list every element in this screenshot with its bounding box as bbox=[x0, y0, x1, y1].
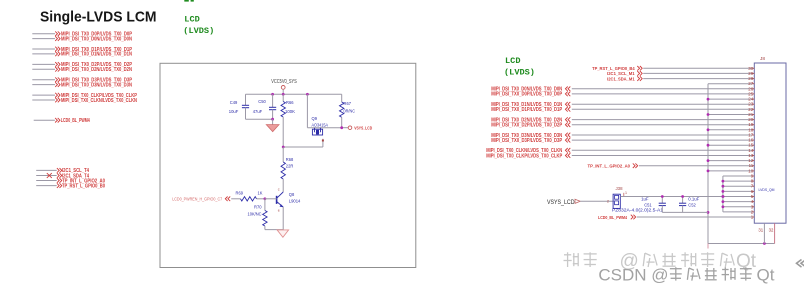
svg-text:MIPI_DSI_TX0_D3N/LVDS_TX0_D3N: MIPI_DSI_TX0_D3N/LVDS_TX0_D3N bbox=[61, 82, 132, 88]
pin 23 bbox=[748, 102, 754, 107]
svg-text:C51: C51 bbox=[644, 202, 652, 207]
wire VSYS stub pin 8 bbox=[722, 180, 755, 183]
svg-text:0R/NC: 0R/NC bbox=[344, 109, 356, 114]
wire VCC rail bbox=[246, 93, 342, 95]
power VCC5V0_SYS bbox=[271, 79, 297, 94]
svg-text:TP_RST_L_GPIO0_B4: TP_RST_L_GPIO0_B4 bbox=[592, 66, 635, 72]
resistor R68 22R bbox=[281, 147, 294, 192]
wire GND stub pin 24 bbox=[707, 98, 755, 101]
node I2C1_SDA_T4 (left) bbox=[36, 173, 89, 179]
resistor R66 100K bbox=[281, 94, 295, 147]
pin 10 bbox=[748, 168, 754, 173]
wire VSYS stub pin 5 bbox=[722, 195, 755, 198]
node VSYS_LCD (feed) bbox=[547, 199, 614, 206]
svg-text:R68: R68 bbox=[286, 157, 294, 162]
svg-text:1uF: 1uF bbox=[641, 197, 649, 202]
pin 2 bbox=[751, 209, 755, 214]
pin 20 bbox=[748, 117, 754, 122]
pin 7 bbox=[751, 184, 755, 189]
watermark line 2 bbox=[598, 266, 774, 285]
svg-text:MIPI_DSI_TX0_D0P/LVDS_TX0_D0P: MIPI_DSI_TX0_D0P/LVDS_TX0_D0P bbox=[491, 92, 563, 98]
pin 21 bbox=[748, 112, 754, 117]
wire PMOS gate bbox=[282, 139, 324, 149]
svg-text:47uF: 47uF bbox=[253, 109, 263, 114]
node MIPI_DSI_TX0_D0N/LVDS_TX0_D0N bbox=[32, 36, 132, 42]
wire cap ground rail bbox=[662, 211, 708, 213]
wire GND bus bbox=[708, 84, 775, 249]
pin 25 bbox=[748, 91, 754, 96]
svg-text:LCD0_BL_PWM4: LCD0_BL_PWM4 bbox=[61, 118, 90, 124]
svg-text:31: 31 bbox=[758, 227, 763, 232]
node I2C1_SDA_M1 bbox=[607, 76, 754, 82]
node MIPI_DSI_TX0_D3P/LVDS_TX0_D3P bbox=[32, 77, 132, 83]
pin 30 bbox=[748, 66, 754, 71]
pin 11 bbox=[749, 163, 755, 168]
capacitor C49 10uF bbox=[229, 94, 249, 119]
node LCD0_BL_PWM4 (left) bbox=[34, 118, 90, 124]
pin 13 bbox=[748, 153, 754, 158]
capacitor C50 47uF bbox=[253, 94, 277, 119]
node MIPI_DSI_TX0_D1P/LVDS_TX0_D1P bbox=[32, 47, 132, 53]
pin 18 bbox=[748, 127, 754, 132]
wire GND stub pin 12 bbox=[707, 159, 755, 162]
wire VSYS stub pin 7 bbox=[722, 185, 755, 188]
pin 28 bbox=[748, 76, 754, 81]
node MIPI_DSI_TX0_D1P/LVDS_TX0_D1P (to pin 22) bbox=[491, 107, 754, 113]
pin 1 bbox=[751, 215, 755, 220]
svg-text:LCD0_PWREN_H_GPIO0_C7: LCD0_PWREN_H_GPIO0_C7 bbox=[172, 197, 222, 202]
pin 8 bbox=[751, 179, 755, 184]
node MIPI_DSI_TX0_CLKN/LVDS_TX0_CLKN (to pin 14) bbox=[486, 148, 754, 154]
svg-text:32: 32 bbox=[769, 227, 774, 232]
pin 29 bbox=[748, 71, 754, 76]
svg-text:MIPI_DSI_TX0_D1N/LVDS_TX0_D1N: MIPI_DSI_TX0_D1N/LVDS_TX0_D1N bbox=[61, 52, 132, 58]
svg-text:I2C1_SDA_M1: I2C1_SDA_M1 bbox=[607, 76, 635, 82]
pin 14 bbox=[748, 148, 754, 153]
node MIPI_DSI_TX0_D2P/LVDS_TX0_D2P (to pin 19) bbox=[491, 122, 754, 128]
node MIPI_DSI_TX0_D2P/LVDS_TX0_D2P bbox=[32, 62, 132, 68]
node MIPI_DSI_TX0_D0P/LVDS_TX0_D0P bbox=[32, 31, 132, 37]
svg-text:Qt: Qt bbox=[757, 266, 775, 285]
svg-text:MIPI_DSI_TX0_D2N/LVDS_TX0_D2N: MIPI_DSI_TX0_D2N/LVDS_TX0_D2N bbox=[61, 67, 132, 73]
svg-text:CSDN @: CSDN @ bbox=[598, 266, 668, 285]
wire VSYS feed to bus bbox=[620, 195, 724, 198]
label fragment (cut-off green text) bbox=[184, 0, 189, 2]
ground (open) bbox=[277, 230, 289, 237]
capacitor C52 0.1uF bbox=[679, 195, 700, 212]
svg-text:MIPI_DSI_TX0_D2P/LVDS_TX0_D2P: MIPI_DSI_TX0_D2P/LVDS_TX0_D2P bbox=[491, 123, 563, 129]
svg-text:c: c bbox=[278, 188, 280, 192]
svg-text:LCD: LCD bbox=[184, 15, 199, 25]
node MIPI_DSI_TX0_D3N/LVDS_TX0_D3N bbox=[32, 82, 132, 88]
pin 24 bbox=[748, 97, 754, 102]
pin 12 bbox=[748, 158, 754, 163]
svg-text:VSYS_LCD: VSYS_LCD bbox=[354, 126, 372, 131]
wire VSYS stub pin 4 bbox=[722, 200, 755, 203]
watermark chevron right edge bbox=[797, 260, 804, 268]
svg-text:R70: R70 bbox=[254, 205, 262, 210]
node I2C1_SCL_T4 (left) bbox=[36, 168, 89, 174]
wire VSYS_LCD bus bbox=[723, 176, 754, 212]
svg-text:1K: 1K bbox=[258, 191, 263, 196]
node MIPI_DSI_TX0_CLKN/LVDS_TX0_CLKN bbox=[32, 98, 137, 104]
watermark line 1 bbox=[564, 251, 757, 272]
node VSYS_LCD (output) bbox=[340, 126, 372, 131]
node MIPI_DSI_TX0_D3P/LVDS_TX0_D3P (to pin 16) bbox=[491, 138, 754, 144]
node MIPI_DSI_TX0_D3N/LVDS_TX0_D3N (to pin 17) bbox=[491, 133, 754, 139]
node LCD0_BL_PWM4 (to pin 1) bbox=[598, 215, 754, 221]
svg-text:TP_INT_L_GPIO2_A0: TP_INT_L_GPIO2_A0 bbox=[588, 164, 631, 170]
svg-text:I2C1_SCL_M1: I2C1_SCL_M1 bbox=[607, 71, 635, 77]
svg-text:Q9: Q9 bbox=[312, 116, 318, 121]
svg-text:e: e bbox=[278, 209, 280, 213]
pin 3 bbox=[751, 204, 755, 209]
pin 4 bbox=[751, 199, 755, 204]
svg-text:R67: R67 bbox=[344, 101, 352, 106]
pin 26 bbox=[748, 86, 754, 91]
svg-text:22R: 22R bbox=[286, 164, 294, 169]
wire emitter/R70 ground rail bbox=[265, 229, 283, 231]
node TP_INT_L_GPIO2_A0 (left) bbox=[36, 178, 105, 184]
svg-text:LCD0_BL_PWM4: LCD0_BL_PWM4 bbox=[598, 215, 627, 221]
svg-text:MIPI_DSI_TX0_D1P/LVDS_TX0_D1P: MIPI_DSI_TX0_D1P/LVDS_TX0_D1P bbox=[491, 107, 563, 113]
pin 15 bbox=[748, 143, 754, 148]
node MIPI_DSI_TX0_D2N/LVDS_TX0_D2N bbox=[32, 67, 132, 73]
pin 32 bbox=[769, 223, 775, 243]
transistor Q8 L9014 (NPN) bbox=[277, 188, 301, 230]
wire GND stub pin 21 bbox=[707, 113, 755, 116]
pin 31 bbox=[758, 223, 764, 243]
pin 16 bbox=[748, 138, 754, 143]
svg-text:J8: J8 bbox=[760, 56, 765, 61]
svg-text:0.1uF: 0.1uF bbox=[688, 197, 699, 202]
node MIPI_DSI_TX0_D1N/LVDS_TX0_D1N bbox=[32, 52, 132, 58]
svg-text:1: 1 bbox=[625, 191, 627, 195]
svg-text:MIPI_DSI_TX0_CLKP/LVDS_TX0_CLK: MIPI_DSI_TX0_CLKP/LVDS_TX0_CLKP bbox=[486, 153, 563, 159]
svg-text:MIPI_DSI_TX0_CLKN/LVDS_TX0_CLK: MIPI_DSI_TX0_CLKN/LVDS_TX0_CLKN bbox=[61, 98, 137, 104]
wire VSYS stub pin 6 bbox=[722, 190, 755, 193]
svg-text:L9014: L9014 bbox=[289, 198, 301, 203]
junction GND bus / cap rail bbox=[707, 211, 710, 214]
svg-text:AO3415A: AO3415A bbox=[312, 122, 329, 127]
junction dots on rail bbox=[271, 93, 309, 96]
svg-text:C50: C50 bbox=[258, 99, 266, 104]
wire GND stub pin 18 bbox=[707, 128, 755, 131]
pin 17 bbox=[748, 133, 754, 138]
svg-text:PZ832A-4.0(2.0)2.5-A1: PZ832A-4.0(2.0)2.5-A1 bbox=[612, 208, 664, 213]
svg-text:MIPI_DSI_TX0_D3P/LVDS_TX0_D3P: MIPI_DSI_TX0_D3P/LVDS_TX0_D3P bbox=[491, 138, 563, 144]
ferrite/jumper J38 PZ832A bbox=[607, 186, 664, 212]
svg-text:C49: C49 bbox=[230, 100, 238, 105]
svg-text:10K/NC: 10K/NC bbox=[248, 211, 263, 216]
svg-text:Q8: Q8 bbox=[289, 192, 295, 197]
wire GND stub pin 10 bbox=[707, 170, 755, 173]
svg-text:VSYS_LCD: VSYS_LCD bbox=[547, 199, 575, 206]
node TP_INT_L_GPIO2_A0 bbox=[588, 163, 755, 169]
resistor R69 1K bbox=[236, 191, 277, 201]
resistor R67 0R/NC bbox=[340, 94, 356, 127]
junction GND bus corner bbox=[763, 242, 766, 245]
node LCD0_PWREN_H_GPIO0_C7 bbox=[172, 197, 240, 202]
node TP_RST_L_GPIO0_B0 (left) bbox=[36, 183, 105, 189]
node MIPI_DSI_TX0_D2N/LVDS_TX0_D2N (to pin 20) bbox=[491, 117, 754, 123]
pin 5 bbox=[751, 194, 755, 199]
svg-text:Single-LVDS LCM: Single-LVDS LCM bbox=[40, 9, 157, 25]
pin 6 bbox=[751, 189, 755, 194]
capacitor C51 1uF bbox=[641, 195, 666, 212]
pin 19 bbox=[748, 122, 754, 127]
svg-text:LCD: LCD bbox=[505, 56, 520, 66]
svg-text:R69: R69 bbox=[236, 191, 244, 196]
resistor R70 10K/NC bbox=[248, 199, 268, 230]
svg-text:10uF: 10uF bbox=[229, 109, 239, 114]
ground (filled) bbox=[266, 119, 279, 131]
svg-text:J38: J38 bbox=[616, 186, 623, 191]
node TP_RST_L_GPIO0_B4 bbox=[592, 66, 754, 72]
wire capacitor ground rail bbox=[246, 118, 275, 121]
node MIPI_DSI_TX0_CLKP/LVDS_TX0_CLKP bbox=[32, 93, 137, 99]
svg-text:C52: C52 bbox=[688, 202, 696, 207]
wire VSYS stub pin 3 bbox=[722, 205, 755, 208]
svg-text:(LVDS): (LVDS) bbox=[504, 67, 535, 77]
svg-text:2: 2 bbox=[607, 200, 609, 204]
svg-text:MIPI_DSI_TX0_D0N/LVDS_TX0_D0N: MIPI_DSI_TX0_D0N/LVDS_TX0_D0N bbox=[61, 36, 132, 42]
pin 9 bbox=[751, 174, 755, 179]
node MIPI_DSI_TX0_D0P/LVDS_TX0_D0P (to pin 25) bbox=[491, 92, 754, 98]
node MIPI_DSI_TX0_D0N/LVDS_TX0_D0N (to pin 26) bbox=[491, 87, 754, 93]
svg-text:TP_RST_L_GPIO0_B0: TP_RST_L_GPIO0_B0 bbox=[62, 183, 105, 189]
node MIPI_DSI_TX0_D1N/LVDS_TX0_D1N (to pin 23) bbox=[491, 102, 754, 108]
node MIPI_DSI_TX0_CLKP/LVDS_TX0_CLKP (to pin 13) bbox=[486, 153, 754, 159]
svg-text:100K: 100K bbox=[285, 109, 295, 114]
svg-text:(LVDS): (LVDS) bbox=[183, 26, 214, 36]
pin 27 bbox=[748, 81, 754, 86]
svg-text:R66: R66 bbox=[286, 100, 294, 105]
pin 22 bbox=[748, 107, 754, 112]
transistor Q9 AO3415A (PMOS) bbox=[307, 94, 341, 135]
wire GND stub pin 15 bbox=[707, 144, 755, 147]
svg-text:LVDS_QM: LVDS_QM bbox=[759, 187, 775, 192]
svg-text:VCC5V0_SYS: VCC5V0_SYS bbox=[271, 79, 297, 85]
connector J8 bbox=[754, 56, 786, 223]
node I2C1_SCL_M1 bbox=[607, 71, 754, 77]
